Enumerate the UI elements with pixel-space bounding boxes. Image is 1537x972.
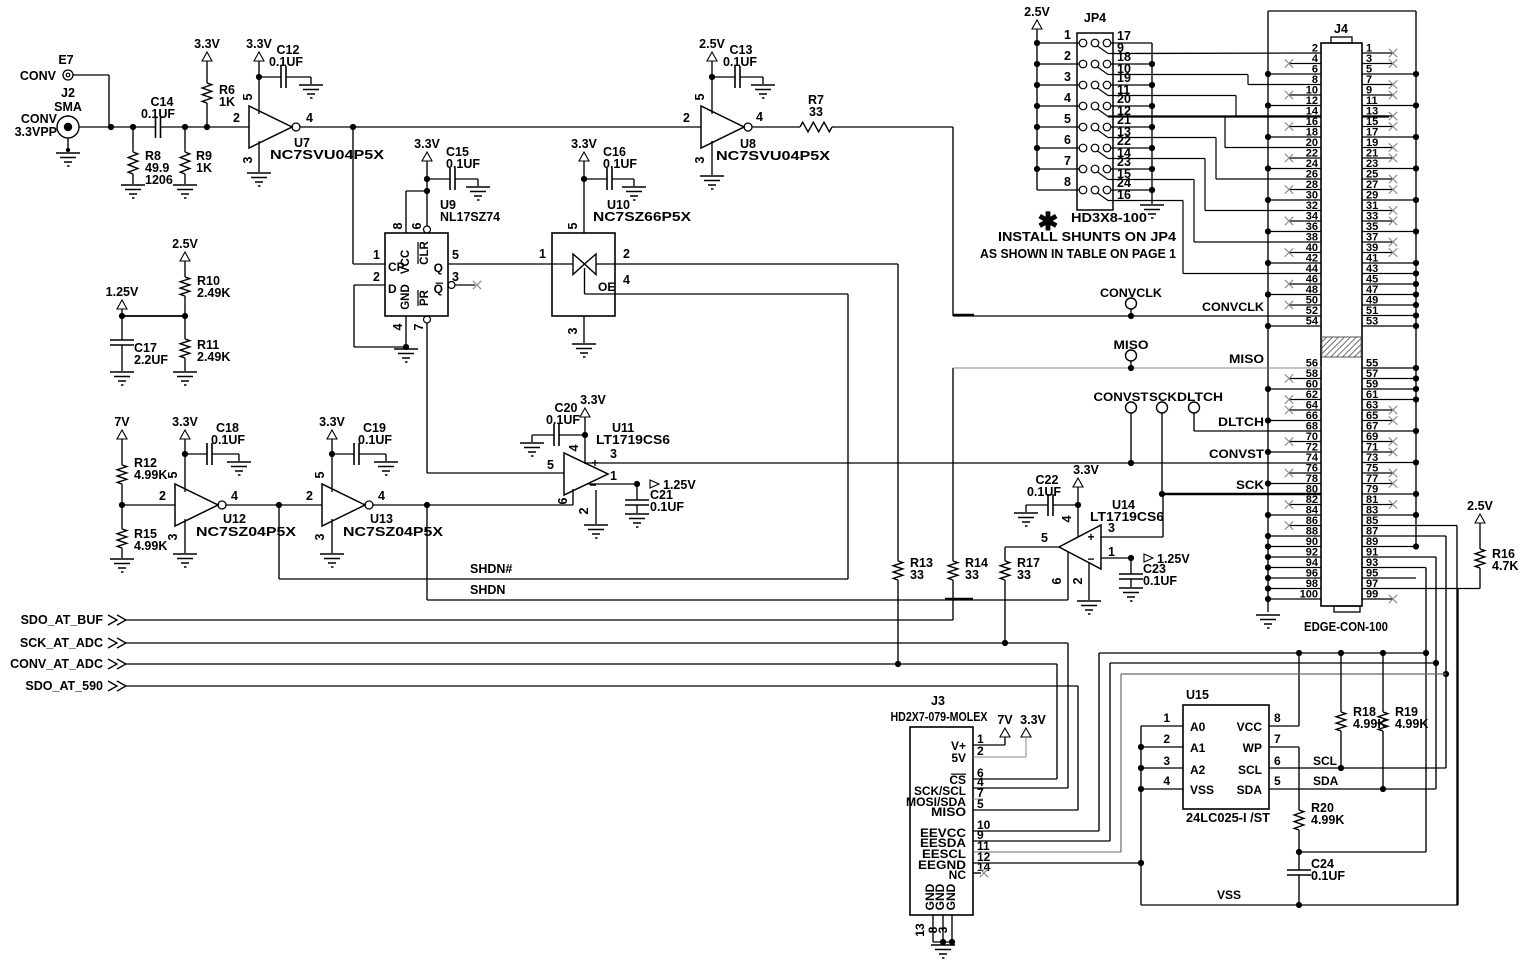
svg-text:4: 4 — [378, 489, 385, 503]
J4 pin 66 row — [1268, 420, 1321, 422]
svg-text:5: 5 — [313, 471, 327, 478]
svg-text:VSS: VSS — [1217, 888, 1241, 902]
svg-text:1: 1 — [1108, 545, 1115, 559]
J4 pin 81 row — [1362, 504, 1393, 506]
wire J4 pin 85 to VSS net — [1362, 525, 1457, 527]
U15 address bus — [1141, 725, 1183, 727]
J4 pin 37 row — [1362, 241, 1393, 243]
wire U7 out to U9 CP pin 1 — [352, 127, 354, 264]
capacitor C21 — [636, 484, 638, 500]
power 2.5V at R16 — [1475, 514, 1485, 523]
svg-text:3: 3 — [1064, 70, 1071, 84]
U10 OE internal wire — [584, 268, 586, 294]
svg-text:4.99K: 4.99K — [1311, 813, 1344, 827]
svg-text:5: 5 — [452, 248, 459, 262]
J4 pin 65 row — [1362, 420, 1393, 422]
svg-text:7: 7 — [1274, 732, 1281, 746]
svg-text:0.1UF: 0.1UF — [603, 157, 637, 171]
svg-text:J2: J2 — [61, 86, 75, 100]
svg-text:5: 5 — [166, 471, 180, 478]
capacitor C17 — [121, 316, 123, 340]
power 3.3V at U12 — [180, 430, 190, 439]
J4 pin 25 row — [1362, 178, 1393, 180]
wire SHDN line — [427, 599, 1068, 601]
J4 pin 96 row — [1268, 577, 1321, 579]
wire SDO_AT_BUF — [126, 619, 953, 621]
J4 pin 42 row — [1268, 262, 1321, 264]
svg-text:U12: U12 — [223, 512, 246, 526]
U13 pin 5 supply — [331, 454, 333, 492]
wire JP4-13 to J4 pin 26 — [1108, 137, 1216, 139]
svg-text:DLTCH: DLTCH — [1218, 415, 1264, 429]
U12 pin 5 supply — [184, 454, 186, 492]
wire VSS — [1141, 904, 1458, 906]
wire JP4-15 to J4 pin 38 — [1108, 179, 1194, 181]
J4 pin 86 row — [1289, 525, 1321, 527]
wire J3-11 to SCL riser net — [1121, 673, 1446, 675]
J4 pin 59 row — [1362, 388, 1416, 390]
svg-text:14: 14 — [977, 860, 991, 874]
J4 pin 35 row — [1362, 231, 1416, 233]
svg-text:0.1UF: 0.1UF — [1143, 574, 1177, 588]
svg-text:3.3VPP: 3.3VPP — [15, 125, 57, 139]
svg-text:SCL: SCL — [1238, 763, 1262, 777]
capacitor C20 — [559, 434, 585, 436]
wire R7 to CONVCLK — [832, 126, 953, 128]
svg-text:EDGE-CON-100: EDGE-CON-100 — [1304, 620, 1388, 634]
svg-text:2: 2 — [233, 111, 240, 125]
U14 pin 2 ground — [1088, 562, 1090, 600]
svg-text:4.99K: 4.99K — [134, 468, 167, 482]
wire JP4-14 to J4 pin 32 — [1108, 158, 1205, 160]
resistor R11 — [184, 316, 186, 339]
capacitor C19 — [332, 453, 354, 455]
svg-text:8: 8 — [391, 222, 405, 229]
svg-text:U13: U13 — [370, 512, 393, 526]
J4 pin 19 row — [1362, 147, 1393, 149]
wire SHDN# drop — [278, 505, 280, 579]
capacitor C23 — [1130, 558, 1132, 574]
J4 pin 83 row — [1362, 514, 1416, 516]
J4 pin 34 row — [1289, 220, 1321, 222]
J4 pin 54 row — [1268, 325, 1321, 327]
svg-text:4: 4 — [231, 489, 238, 503]
svg-text:SMA: SMA — [54, 100, 82, 114]
svg-text:2: 2 — [977, 744, 984, 758]
J4 pin 21 row — [1362, 157, 1393, 159]
wire EEVCC net — [1099, 652, 1426, 654]
svg-text:SCL: SCL — [1313, 754, 1337, 768]
svg-text:CONV: CONV — [20, 69, 57, 83]
svg-text:53: 53 — [1366, 316, 1378, 328]
svg-text:2: 2 — [683, 111, 690, 125]
wire CONVCLK thick segment — [953, 314, 974, 316]
svg-text:SHDN#: SHDN# — [470, 562, 512, 576]
svg-text:1: 1 — [1064, 28, 1071, 42]
wire U12 out to U13 in — [226, 504, 322, 506]
U8 pin 5 supply — [711, 77, 713, 114]
inverter U8 — [701, 106, 744, 148]
svg-text:J3: J3 — [931, 694, 945, 708]
svg-text:JP4: JP4 — [1084, 11, 1106, 25]
svg-text:5: 5 — [693, 93, 707, 100]
J4 pin 1 row — [1362, 52, 1393, 54]
J4 pin 69 row — [1362, 441, 1393, 443]
ground at J2 — [67, 138, 69, 150]
J4 pin 45 row — [1362, 283, 1416, 285]
capacitor C15 — [427, 178, 450, 180]
wire JP4-11 to J4 pin 14 — [1108, 95, 1236, 97]
J4 pin 89 row — [1362, 546, 1416, 548]
wire SDO_AT_590 — [126, 685, 1078, 687]
svg-text:100: 100 — [1300, 589, 1318, 601]
J4 pin 36 row — [1268, 231, 1321, 233]
J4 pin 23 row — [1362, 168, 1416, 170]
svg-text:5: 5 — [1274, 774, 1281, 788]
node U12 input — [119, 502, 125, 508]
J4 pin 46 row — [1289, 283, 1321, 285]
J4 pin 79 row — [1362, 493, 1416, 495]
svg-text:2: 2 — [577, 507, 591, 514]
J4 pin 39 row — [1362, 252, 1393, 254]
svg-text:13: 13 — [913, 923, 927, 937]
capacitor C16 — [584, 178, 607, 180]
power 3.3V at U11 — [580, 408, 590, 417]
svg-text:INSTALL SHUNTS ON JP4: INSTALL SHUNTS ON JP4 — [998, 229, 1177, 244]
capacitor C14 — [155, 116, 157, 138]
resistor R12 — [117, 465, 127, 484]
svg-text:1206: 1206 — [145, 173, 173, 187]
resistor R16 — [1475, 549, 1485, 568]
U7 pin 5 supply — [258, 77, 260, 114]
J4 pin 5 row — [1362, 73, 1416, 75]
J4 pin 53 row — [1362, 325, 1416, 327]
svg-text:1K: 1K — [219, 95, 235, 109]
J4 pin 58 row — [1289, 378, 1321, 380]
svg-text:33: 33 — [910, 568, 924, 582]
svg-text:3: 3 — [566, 327, 580, 334]
svg-text:2: 2 — [623, 247, 630, 261]
wire R20 to pin93 net — [1299, 851, 1426, 853]
svg-text:4.99K: 4.99K — [134, 539, 167, 553]
wire SCK to J4 pin 80 — [1162, 493, 1321, 495]
svg-text:SCK_AT_ADC: SCK_AT_ADC — [20, 636, 103, 650]
svg-text:3: 3 — [313, 533, 327, 540]
J4 pin 7 row — [1362, 84, 1393, 86]
U11 pin 1 output to 1.25V — [587, 483, 637, 485]
resistor R20 — [1294, 810, 1304, 830]
wire J3-10 riser — [1098, 653, 1100, 831]
J4 pin 77 row — [1362, 483, 1393, 485]
svg-text:4: 4 — [567, 444, 581, 451]
svg-text:J4: J4 — [1334, 22, 1348, 36]
U7 pin 3 ground — [258, 141, 260, 172]
svg-text:NC7SVU04P5X: NC7SVU04P5X — [270, 148, 385, 162]
wire JP4-12 to J4 pin 20 — [1108, 115, 1321, 117]
J4 pin 47 row — [1362, 294, 1416, 296]
wire SDA — [1269, 788, 1436, 790]
svg-text:VCC: VCC — [400, 250, 412, 274]
J4 pin 18 row — [1268, 136, 1321, 138]
svg-text:E7: E7 — [58, 53, 73, 67]
svg-text:VSS: VSS — [1190, 783, 1214, 797]
J4 pin 100 row — [1268, 598, 1321, 600]
svg-text:1.25V: 1.25V — [106, 285, 139, 299]
power 3.3V at U10 — [579, 152, 589, 161]
svg-text:HD3X8-100: HD3X8-100 — [1071, 211, 1147, 225]
svg-text:2.5V: 2.5V — [172, 237, 198, 251]
wire SHDN drop — [426, 505, 428, 600]
JP4 row 8 — [1079, 186, 1087, 194]
svg-text:A0: A0 — [1190, 720, 1206, 734]
U15 WP pin 7 wire to R20 — [1269, 746, 1299, 748]
svg-text:PR: PR — [419, 289, 431, 306]
U9 CLR pin 6 bubble — [424, 226, 431, 233]
J4 pin 55 row — [1362, 367, 1416, 369]
J4 pin 51 row — [1362, 315, 1416, 317]
J4 pin 60 row — [1268, 388, 1321, 390]
svg-text:3.3V: 3.3V — [580, 393, 606, 407]
wire U8 out to R7 — [752, 126, 800, 128]
J4 pin 43 row — [1362, 273, 1416, 275]
J4 pin 99 row — [1362, 598, 1393, 600]
J4 pin 50 row — [1289, 304, 1321, 306]
U14 pin 1 output to 1.25V — [1101, 557, 1131, 559]
wire J2 to U7 input — [79, 126, 156, 128]
svg-text:7V: 7V — [997, 713, 1013, 727]
power 3.3V at C12 — [254, 52, 264, 61]
svg-text:2: 2 — [1163, 732, 1170, 746]
svg-text:U15: U15 — [1186, 688, 1209, 702]
svg-text:3: 3 — [693, 156, 707, 163]
resistor R10 — [180, 277, 190, 296]
wire J4 pin 87 to SCL net — [1362, 535, 1446, 537]
JP4 row 2 — [1079, 60, 1087, 68]
svg-text:5: 5 — [241, 93, 255, 100]
JP4 row 4 — [1079, 102, 1087, 110]
power 7V — [117, 430, 127, 439]
svg-text:5: 5 — [566, 222, 580, 229]
wire CONV_AT_ADC to J3 pin 6 — [1056, 664, 1058, 779]
U13 pin 3 ground — [331, 519, 333, 553]
J4 pin 30 row — [1268, 199, 1321, 201]
J4 pin 57 row — [1362, 378, 1416, 380]
resistor R18 — [1340, 653, 1342, 712]
power 2.5V at JP4 — [1032, 20, 1042, 29]
wire U10 output to R13 — [615, 263, 898, 265]
JP4 row 5 — [1079, 123, 1087, 131]
svg-text:1: 1 — [1163, 711, 1170, 725]
J4 pin 15 row — [1362, 126, 1393, 128]
power 2.5V at C13 — [707, 52, 717, 61]
svg-text:NL17SZ74: NL17SZ74 — [440, 210, 500, 224]
J4 ground frame — [1267, 11, 1269, 612]
U11 pin 2 ground — [595, 490, 597, 524]
J4 pin 10 row — [1289, 94, 1321, 96]
svg-text:99: 99 — [1366, 589, 1378, 601]
J4 pin 22 row — [1289, 157, 1321, 159]
svg-text:AS SHOWN IN TABLE ON PAGE 1: AS SHOWN IN TABLE ON PAGE 1 — [980, 246, 1176, 261]
svg-text:4.99K: 4.99K — [1395, 717, 1428, 731]
wire J4 pin 91 to SDA net — [1362, 556, 1436, 558]
power 7V at J3 — [1000, 728, 1010, 737]
svg-text:LT1719CS6: LT1719CS6 — [1090, 510, 1164, 524]
comparator U11 LT1719CS6 — [564, 453, 608, 495]
resistor R15 — [121, 505, 123, 529]
svg-text:CONV: CONV — [21, 112, 58, 126]
U14 pin 3 output to SCK — [1101, 536, 1163, 538]
capacitor C12 — [259, 76, 281, 78]
svg-text:NC7SZ04P5X: NC7SZ04P5X — [343, 525, 444, 539]
svg-text:2.5V: 2.5V — [699, 37, 725, 51]
wire JP4-10 to J4 pin 8 — [1108, 74, 1248, 76]
capacitor C13 — [712, 76, 735, 78]
svg-text:0.1UF: 0.1UF — [446, 157, 480, 171]
U11 pin 3 output long wire CONVST — [585, 462, 1321, 464]
svg-text:1: 1 — [373, 248, 380, 262]
svg-text:0.1UF: 0.1UF — [269, 55, 303, 69]
svg-text:CONVST: CONVST — [1209, 447, 1265, 461]
wire SHDN# line — [279, 578, 848, 580]
power 3.3V at U13 — [327, 430, 337, 439]
connector J2 SMA — [57, 116, 79, 138]
svg-text:5: 5 — [1064, 112, 1071, 126]
svg-text:4: 4 — [1060, 515, 1074, 522]
wire DLTCH to J4 pin 68 — [1194, 430, 1321, 432]
svg-text:SDO_AT_BUF: SDO_AT_BUF — [21, 613, 104, 627]
svg-text:A1: A1 — [1190, 741, 1206, 755]
svg-text:2.2UF: 2.2UF — [134, 353, 168, 367]
svg-text:SCK: SCK — [1236, 478, 1264, 492]
svg-text:OE: OE — [598, 280, 615, 294]
J4 pin 16 row — [1289, 126, 1321, 128]
JP4 row 6 — [1079, 144, 1087, 152]
svg-text:2: 2 — [373, 270, 380, 284]
J4 pin 76 row — [1289, 472, 1321, 474]
U9 Qbar pin 3 no connect — [448, 282, 455, 289]
svg-text:4.7K: 4.7K — [1492, 559, 1518, 573]
wire CONV_AT_ADC — [126, 663, 1057, 665]
svg-text:SHDN: SHDN — [470, 583, 505, 597]
capacitor C24 — [1298, 852, 1300, 870]
terminal E7 — [63, 70, 73, 80]
svg-text:SDA: SDA — [1237, 783, 1263, 797]
svg-text:2.49K: 2.49K — [197, 286, 230, 300]
inverter U12 — [175, 484, 218, 526]
J4 pin 67 row — [1362, 430, 1416, 432]
resistor R9 — [184, 127, 186, 152]
svg-text:0.1UF: 0.1UF — [546, 413, 580, 427]
J4 pin 62 row — [1289, 399, 1321, 401]
svg-text:NC7SZ66P5X: NC7SZ66P5X — [593, 210, 692, 224]
node 1.25V junction — [122, 315, 185, 317]
svg-text:6: 6 — [410, 222, 424, 229]
resistor R17 — [1004, 547, 1006, 561]
JP4 row 7 — [1079, 165, 1087, 173]
U8 pin 3 ground — [711, 141, 713, 175]
wire J4 pin 93 to EEVCC net — [1362, 567, 1426, 569]
svg-text:MISO: MISO — [931, 805, 966, 819]
svg-text:3: 3 — [610, 447, 617, 461]
wire JP4-9 to J4 pin 2 — [1108, 52, 1321, 55]
JP4 ground bus — [1151, 43, 1153, 204]
J4 pin 88 row — [1268, 535, 1321, 537]
svg-text:4: 4 — [306, 111, 313, 125]
J4 pin 95 row — [1362, 577, 1416, 579]
svg-text:8: 8 — [1274, 711, 1281, 725]
svg-text:Q: Q — [434, 261, 443, 275]
J4 pin 73 row — [1362, 462, 1416, 464]
svg-text:1: 1 — [610, 469, 617, 483]
J4 pin 71 row — [1362, 451, 1393, 453]
svg-text:CLR: CLR — [419, 240, 431, 264]
JP4 row 3 — [1079, 81, 1087, 89]
svg-text:3.3V: 3.3V — [1020, 713, 1046, 727]
wire J4 pin 97 to R16 — [1362, 588, 1480, 590]
U14 pin 6 latch wire — [1067, 551, 1069, 600]
J4 pin 40 row — [1289, 252, 1321, 254]
svg-text:A2: A2 — [1190, 763, 1206, 777]
capacitor C18 — [185, 453, 207, 455]
svg-text:5: 5 — [547, 458, 554, 472]
wire U7 output to U8 — [300, 126, 701, 128]
svg-text:Q: Q — [434, 282, 443, 296]
svg-text:3.3V: 3.3V — [172, 415, 198, 429]
svg-text:0.1UF: 0.1UF — [650, 500, 684, 514]
J4 pin 13 row — [1362, 115, 1393, 117]
svg-text:4: 4 — [391, 323, 405, 330]
resistor R14 — [948, 561, 958, 580]
J4 pin 28 row — [1289, 189, 1321, 191]
svg-text:SDA: SDA — [1313, 774, 1339, 788]
svg-text:3: 3 — [1108, 521, 1115, 535]
U10 pin 3 ground — [583, 316, 585, 343]
J4 pin 31 row — [1362, 210, 1393, 212]
U12 pin 3 ground — [184, 519, 186, 553]
svg-text:5V: 5V — [951, 751, 966, 765]
svg-text:NC7SVU04P5X: NC7SVU04P5X — [716, 149, 831, 163]
inverter U7 — [249, 106, 292, 148]
svg-text:6: 6 — [556, 497, 570, 504]
svg-text:NC: NC — [949, 868, 967, 882]
svg-text:2: 2 — [159, 489, 166, 503]
J4 pin 9 row — [1362, 94, 1393, 96]
J4 pin 94 row — [1268, 567, 1321, 569]
J4 pin 17 row — [1362, 136, 1416, 138]
wire U10 OE to SHDN# — [615, 293, 848, 295]
J4 pin 84 row — [1268, 514, 1321, 516]
svg-text:24LC025-I /ST: 24LC025-I /ST — [1186, 811, 1270, 825]
svg-text:7V: 7V — [114, 415, 130, 429]
svg-text:33: 33 — [1017, 568, 1031, 582]
U15 VCC pin 8 wire — [1269, 725, 1299, 727]
svg-text:0.1UF: 0.1UF — [1027, 485, 1061, 499]
comparator U14 LT1719CS6 — [1059, 525, 1101, 569]
U11 pin 4 supply — [584, 435, 586, 464]
wire SCK_AT_ADC to J3 pin 4 — [1067, 643, 1069, 788]
wire SCL — [1269, 767, 1446, 769]
svg-text:LT1719CS6: LT1719CS6 — [596, 433, 670, 447]
svg-text:−: − — [589, 478, 596, 492]
svg-text:CONV_AT_ADC: CONV_AT_ADC — [10, 657, 103, 671]
svg-text:3.3V: 3.3V — [414, 137, 440, 151]
svg-text:0.1UF: 0.1UF — [358, 433, 392, 447]
J4 pin 48 row — [1268, 294, 1321, 296]
svg-text:6: 6 — [1274, 754, 1281, 768]
resistor R8 — [132, 127, 134, 152]
wire SHDN thick segment — [945, 598, 973, 601]
svg-text:1: 1 — [539, 247, 546, 261]
